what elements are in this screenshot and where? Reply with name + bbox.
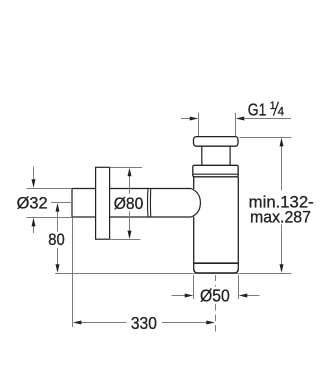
dimension G1 1/4 arrow right: [236, 117, 245, 121]
bottle trap nut (second flange): [193, 165, 238, 177]
dimension 80 line upper segment: [57, 211, 59, 232]
dimension O50 right extension line: [238, 275, 240, 299]
inlet pipe joint line right: [149, 189, 151, 217]
dimension O80 top extension line: [110, 167, 142, 169]
center dashed line below trap (upper part): [215, 275, 217, 287]
dimension 80 top reference line (pipe centerline): [51, 202, 72, 204]
dimension O80 line upper segment: [129, 176, 131, 194]
dimension O80 line lower segment: [129, 212, 131, 232]
inlet pipe bottom line (wall to rosette): [72, 216, 96, 218]
dimension 80 arrow up: [56, 203, 60, 212]
svg-text:4: 4: [278, 107, 285, 119]
bottle trap cap bottom: [194, 269, 239, 273]
dimension G1 1/4 arrow left: [190, 117, 199, 121]
bottle trap body left wall upper: [193, 177, 195, 189]
dimension O32 arrow down to pipe top: [32, 179, 36, 188]
bottle trap neck right line: [229, 146, 231, 165]
dimension G1 1/4 extension line left: [198, 113, 200, 137]
center dashed line below trap (lower part): [215, 304, 217, 332]
min/max arrow up: [280, 138, 284, 147]
dimension O32 arrow up to pipe bottom: [32, 218, 36, 227]
dimension O50 arrow right-pointing: [185, 294, 194, 298]
inlet pipe joint line left: [147, 189, 150, 217]
dimension O80 arrow down: [128, 231, 132, 240]
svg-text:80: 80: [48, 231, 65, 249]
svg-text:G1: G1: [248, 100, 266, 120]
min/max top extension line: [240, 137, 292, 139]
dimension 330 line left segment: [80, 322, 126, 324]
dimension 80 arrow down: [56, 264, 60, 273]
svg-text:max.287: max.287: [250, 208, 311, 226]
dimension 330 left extension line: [72, 217, 74, 327]
dimension G1 1/4 extension line right: [235, 113, 237, 137]
dimension O80 bottom extension line: [110, 239, 141, 241]
dimension 330 arrow right: [206, 321, 215, 325]
bottle trap body right wall: [237, 177, 239, 270]
bottle trap body left wall lower: [193, 217, 195, 270]
dimension O50 left tail: [172, 295, 187, 297]
dimension O50 arrow left-pointing: [239, 294, 248, 298]
svg-text:330: 330: [131, 313, 157, 333]
dimension O50 right tail: [246, 295, 260, 297]
bottle trap top flange: [194, 137, 239, 147]
svg-text:Ø80: Ø80: [114, 194, 144, 213]
dimension O32 top extension line: [27, 188, 73, 190]
dimension O50 left extension line: [193, 275, 195, 299]
dimension O32 upper arrow stem: [33, 167, 35, 182]
inlet pipe end bulge into body: [191, 189, 200, 218]
bottle trap neck left line: [201, 146, 203, 165]
dimension O32 lower arrow stem: [33, 225, 35, 233]
dimension 330 line right segment: [162, 322, 207, 324]
inlet pipe top line (wall to rosette): [72, 188, 96, 190]
label G1 1/4: [248, 100, 285, 120]
inlet pipe wall end line: [71, 189, 73, 218]
dimension O80 arrow up: [128, 168, 132, 177]
inlet pipe top line (rosette to body): [110, 188, 192, 190]
dimension 330 arrow left: [73, 321, 82, 325]
dimension G1 1/4 line left tail: [181, 118, 191, 120]
svg-text:Ø50: Ø50: [200, 285, 230, 305]
min/max dimension line lower segment: [281, 225, 283, 267]
dimension 80 line lower segment: [57, 248, 59, 265]
bottle trap cap top line: [194, 262, 239, 264]
min/max arrow down: [280, 264, 284, 273]
min/max bottom extension line (long, to left): [55, 273, 291, 275]
bottle trap nut inner line: [193, 173, 238, 175]
min/max dimension line upper segment: [281, 145, 283, 191]
dimension G1 1/4 line right leader: [244, 118, 291, 120]
svg-text:Ø32: Ø32: [17, 194, 48, 213]
label min.132-max.287: [249, 194, 314, 227]
wall rosette: [96, 167, 110, 239]
inlet pipe bottom line (rosette to body): [110, 216, 192, 218]
dimension O32 bottom extension line: [27, 217, 73, 219]
